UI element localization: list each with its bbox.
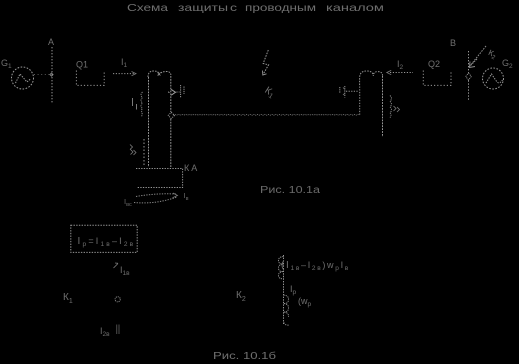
svg-text:проводным: проводным [245,2,316,14]
relay coil KA (fig b) stem [283,255,285,325]
svg-text:A: A [48,37,54,47]
label w2 glyphs [130,145,136,156]
fault arrow K2 [470,46,487,68]
generator G2 [483,68,504,89]
pilot wire [173,113,359,116]
CT TA2 primary winding (bumps) [360,71,383,85]
junction node on bus B [466,73,472,80]
label tick w1 [133,98,137,110]
svg-text:Q1: Q1 [76,60,88,70]
CT TA2 secondary winding (squiggle) [390,96,392,118]
CT TA1 core line left [148,77,150,167]
relay coil bottom hook [284,320,290,325]
svg-text:с: с [230,2,237,14]
pilot riser right [359,85,361,115]
relay coil top loops [278,257,283,279]
label w2 right [394,106,400,112]
node on CT1 winding [158,73,161,76]
CT TA1 core line right [170,76,172,168]
junction node on pilot wire left [168,112,174,118]
current arrow I1 [113,72,136,76]
node: G1 tap on bus A [50,73,53,76]
svg-text:каналом: каналом [326,2,384,14]
wire G1 to bus A [34,74,50,76]
label I1v with arrow [114,263,119,268]
bus B [468,51,470,101]
pilot coupling bars left [177,91,180,93]
generator G1 [12,67,34,89]
current arrow I2 [387,70,413,74]
relay coil lower loops [284,295,289,317]
svg-text:Схема: Схема [127,2,168,14]
CT TA2 core line right [382,76,384,137]
svg-text:Рис. 10.1а: Рис. 10.1а [260,185,321,196]
svg-text:защиты: защиты [178,2,228,14]
relay branch arrow at left CT [168,89,175,95]
relay KA output lens/arrow [134,193,178,203]
svg-text:Рис. 10.1б: Рис. 10.1б [213,350,276,362]
bus A [51,47,53,103]
breaker Q1 [76,71,104,86]
formula box [71,225,137,252]
CT TA1 secondary winding (squiggle) [141,92,143,117]
CT TA1 lower winding line [143,139,145,166]
title: Схема защиты с проводным каналом [127,2,384,14]
node circle [115,297,120,302]
relay KA box [136,169,183,188]
svg-text:B: B [450,38,456,48]
CT TA1 primary winding (bumps) [148,71,171,77]
svg-text:КА: КА [184,163,199,173]
fault lightning K1 [263,50,269,75]
svg-text:Q2: Q2 [428,59,440,69]
pilot coupling bars right [346,90,358,92]
breaker Q2 [423,71,451,86]
